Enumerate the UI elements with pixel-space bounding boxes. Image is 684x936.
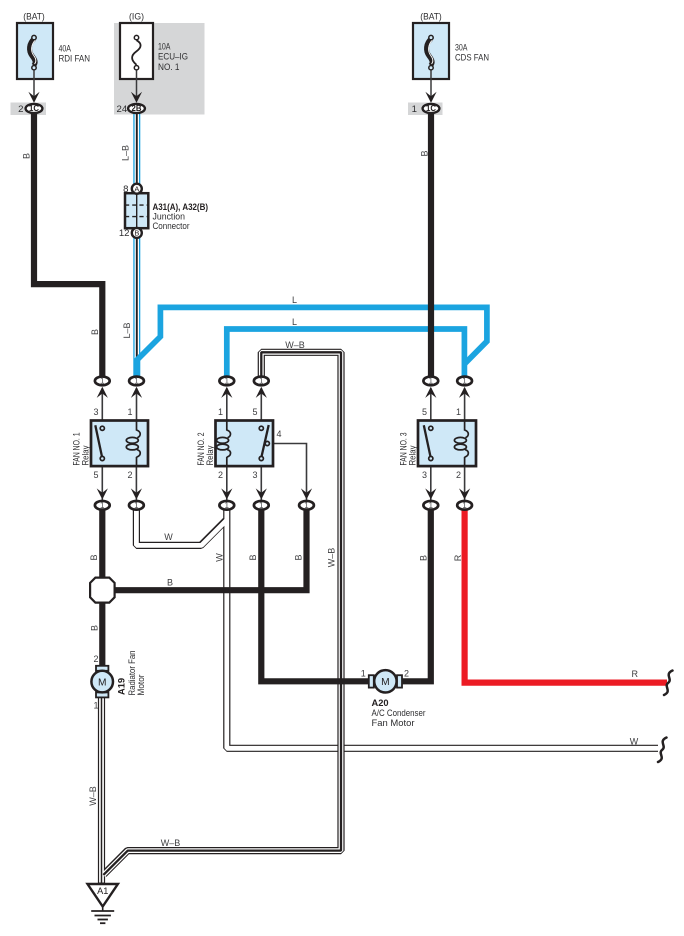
svg-text:B: B — [294, 554, 304, 560]
svg-text:1: 1 — [412, 104, 417, 115]
svg-text:Connector: Connector — [153, 221, 190, 231]
svg-text:(BAT): (BAT) — [420, 12, 442, 23]
svg-text:1: 1 — [225, 377, 229, 386]
svg-text:1: 1 — [127, 407, 132, 417]
svg-text:2: 2 — [218, 470, 223, 480]
svg-text:1: 1 — [259, 501, 263, 510]
svg-text:1: 1 — [304, 501, 308, 510]
svg-text:W–B: W–B — [161, 838, 181, 848]
svg-text:1: 1 — [361, 669, 366, 679]
svg-text:B: B — [90, 625, 100, 631]
svg-text:5: 5 — [93, 470, 98, 480]
svg-text:(IG): (IG) — [129, 12, 144, 23]
svg-text:B: B — [248, 554, 258, 560]
svg-text:2: 2 — [18, 104, 23, 115]
svg-text:B: B — [22, 153, 32, 159]
svg-text:Relay: Relay — [81, 445, 91, 465]
svg-text:R: R — [453, 554, 463, 561]
svg-text:A: A — [134, 184, 139, 193]
svg-text:1: 1 — [100, 377, 104, 386]
svg-text:1: 1 — [225, 501, 229, 510]
svg-text:B: B — [167, 577, 173, 587]
svg-text:NO. 1: NO. 1 — [158, 62, 180, 73]
svg-text:Relay: Relay — [408, 445, 418, 465]
svg-text:B: B — [90, 329, 100, 335]
svg-text:A19: A19 — [116, 678, 126, 695]
svg-text:B: B — [134, 229, 139, 238]
svg-text:2B: 2B — [132, 104, 142, 113]
svg-text:1: 1 — [93, 701, 98, 711]
svg-text:3: 3 — [422, 470, 427, 480]
svg-text:A31(A), A32(B): A31(A), A32(B) — [153, 202, 209, 212]
svg-text:W: W — [630, 737, 639, 747]
svg-text:3: 3 — [252, 470, 257, 480]
svg-text:2: 2 — [404, 669, 409, 679]
svg-text:A20: A20 — [372, 698, 389, 708]
svg-text:M: M — [381, 677, 390, 688]
svg-text:W–B: W–B — [327, 548, 337, 568]
svg-text:B: B — [420, 150, 430, 156]
svg-text:1C: 1C — [29, 104, 39, 113]
svg-text:L: L — [292, 295, 297, 305]
svg-text:1C: 1C — [426, 104, 436, 113]
svg-text:12: 12 — [119, 228, 130, 239]
svg-text:A/C Condenser: A/C Condenser — [372, 708, 426, 718]
svg-text:W–B: W–B — [285, 340, 305, 350]
svg-text:Junction: Junction — [153, 212, 186, 222]
svg-text:Relay: Relay — [205, 445, 215, 465]
svg-text:R: R — [631, 669, 638, 679]
svg-text:1: 1 — [429, 377, 433, 386]
svg-text:2: 2 — [93, 654, 98, 664]
svg-text:2: 2 — [456, 470, 461, 480]
svg-text:3: 3 — [93, 407, 98, 417]
svg-text:B: B — [89, 554, 99, 560]
svg-text:1: 1 — [259, 377, 263, 386]
svg-text:1: 1 — [462, 501, 466, 510]
svg-text:W–B: W–B — [88, 786, 98, 806]
svg-text:2: 2 — [127, 470, 132, 480]
svg-text:1: 1 — [462, 377, 466, 386]
svg-text:L–B: L–B — [121, 145, 131, 161]
svg-text:1: 1 — [218, 407, 223, 417]
svg-text:L–B: L–B — [122, 322, 132, 338]
svg-text:(BAT): (BAT) — [23, 12, 45, 23]
svg-text:1: 1 — [134, 501, 138, 510]
svg-text:24: 24 — [117, 104, 128, 115]
svg-text:4: 4 — [277, 429, 282, 439]
svg-text:5: 5 — [252, 407, 257, 417]
svg-text:B: B — [419, 555, 429, 561]
svg-text:RDI FAN: RDI FAN — [59, 54, 91, 65]
svg-text:1: 1 — [100, 501, 104, 510]
svg-text:1: 1 — [456, 407, 461, 417]
svg-text:L: L — [292, 317, 297, 327]
svg-text:5: 5 — [422, 407, 427, 417]
svg-text:1: 1 — [429, 501, 433, 510]
svg-text:W: W — [164, 532, 173, 542]
svg-text:Fan Motor: Fan Motor — [372, 718, 415, 728]
svg-text:CDS FAN: CDS FAN — [455, 53, 489, 64]
svg-text:M: M — [98, 677, 107, 688]
svg-text:Motor: Motor — [136, 675, 146, 696]
svg-text:8: 8 — [123, 184, 128, 195]
svg-text:A1: A1 — [97, 886, 108, 896]
svg-text:1: 1 — [134, 377, 138, 386]
svg-text:W: W — [215, 553, 225, 562]
